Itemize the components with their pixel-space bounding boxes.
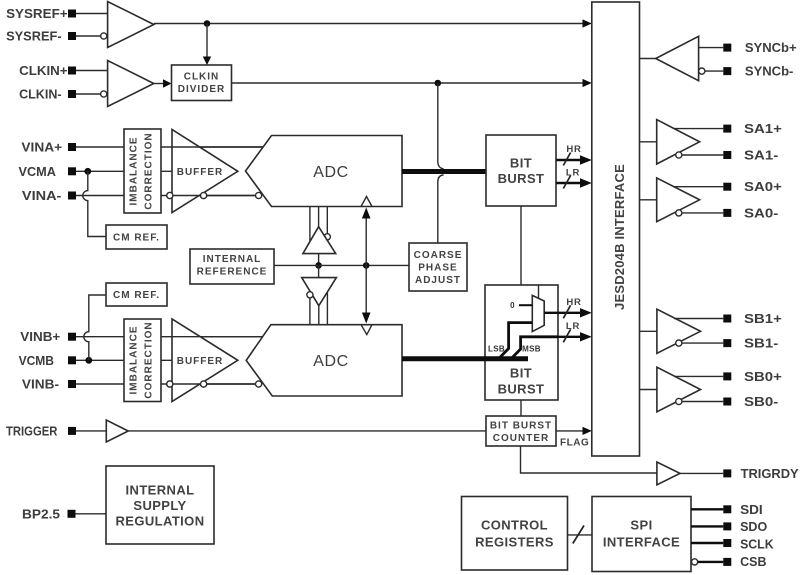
svg-text:HR: HR [566, 297, 581, 308]
svg-text:SCLK: SCLK [740, 537, 774, 551]
svg-text:SA0+: SA0+ [744, 180, 782, 194]
svg-text:LR: LR [566, 168, 580, 179]
svg-text:BURST: BURST [498, 382, 545, 397]
svg-text:HR: HR [566, 144, 581, 155]
svg-text:VINA+: VINA+ [21, 141, 62, 155]
svg-text:DIVIDER: DIVIDER [178, 84, 226, 95]
svg-text:CLKIN: CLKIN [184, 72, 220, 83]
svg-text:VCMB: VCMB [19, 354, 54, 368]
svg-text:SYNCb+: SYNCb+ [745, 41, 797, 55]
svg-text:SYSREF+: SYSREF+ [6, 7, 68, 21]
svg-text:SB1+: SB1+ [744, 312, 782, 326]
svg-text:JESD204B INTERFACE: JESD204B INTERFACE [612, 164, 627, 310]
svg-text:TRIGGER: TRIGGER [6, 424, 57, 438]
svg-text:PHASE: PHASE [418, 263, 457, 274]
svg-text:SUPPLY: SUPPLY [133, 498, 186, 513]
svg-text:0: 0 [510, 301, 515, 310]
svg-text:SA1-: SA1- [744, 149, 778, 163]
svg-text:LR: LR [566, 321, 580, 332]
svg-text:VINB-: VINB- [22, 378, 59, 392]
svg-text:SB0+: SB0+ [744, 370, 782, 384]
svg-text:CLKIN+: CLKIN+ [19, 64, 68, 78]
svg-text:FLAG: FLAG [560, 438, 589, 449]
svg-text:SPI: SPI [630, 518, 652, 533]
svg-text:BURST: BURST [498, 171, 545, 186]
svg-text:IMBALANCE: IMBALANCE [128, 326, 139, 395]
svg-text:SYSREF-: SYSREF- [6, 30, 62, 44]
svg-text:BP2.5: BP2.5 [22, 507, 60, 521]
svg-text:INTERNAL: INTERNAL [126, 483, 195, 498]
svg-text:ADC: ADC [313, 164, 349, 181]
svg-text:CM REF.: CM REF. [113, 290, 160, 301]
svg-text:REGISTERS: REGISTERS [475, 535, 554, 550]
svg-text:SA0-: SA0- [744, 206, 778, 220]
svg-text:SDO: SDO [740, 520, 767, 534]
svg-text:INTERNAL: INTERNAL [203, 254, 262, 265]
svg-text:SYNCb-: SYNCb- [745, 65, 794, 79]
svg-text:COARSE: COARSE [414, 250, 463, 261]
svg-text:SDI: SDI [740, 503, 763, 517]
svg-text:INTERFACE: INTERFACE [603, 535, 680, 550]
svg-text:CLKIN-: CLKIN- [19, 88, 62, 102]
svg-text:REGULATION: REGULATION [116, 514, 205, 529]
svg-text:IMBALANCE: IMBALANCE [128, 137, 139, 206]
svg-text:TRIGRDY: TRIGRDY [741, 467, 800, 481]
svg-text:VINB+: VINB+ [20, 330, 60, 344]
svg-text:BIT: BIT [510, 156, 532, 171]
svg-text:CONTROL: CONTROL [481, 518, 548, 533]
svg-text:BUFFER: BUFFER [177, 167, 224, 178]
svg-text:VINA-: VINA- [22, 189, 62, 203]
svg-text:BIT BURST: BIT BURST [490, 421, 552, 432]
svg-text:SA1+: SA1+ [744, 122, 782, 136]
svg-text:LSB: LSB [488, 345, 505, 354]
svg-text:CORRECTION: CORRECTION [143, 132, 154, 209]
svg-text:VCMA: VCMA [19, 165, 56, 179]
svg-text:SB1-: SB1- [744, 337, 778, 351]
svg-text:CORRECTION: CORRECTION [143, 321, 154, 398]
svg-text:ADC: ADC [313, 353, 349, 370]
svg-text:CSB: CSB [740, 555, 766, 569]
svg-text:CM REF.: CM REF. [113, 233, 160, 244]
svg-text:ADJUST: ADJUST [415, 275, 461, 286]
svg-text:BIT: BIT [510, 366, 532, 381]
svg-text:REFERENCE: REFERENCE [197, 267, 268, 278]
svg-text:BUFFER: BUFFER [177, 356, 224, 367]
svg-text:SB0-: SB0- [744, 395, 778, 409]
svg-text:COUNTER: COUNTER [493, 433, 549, 444]
svg-text:MSB: MSB [522, 345, 541, 354]
